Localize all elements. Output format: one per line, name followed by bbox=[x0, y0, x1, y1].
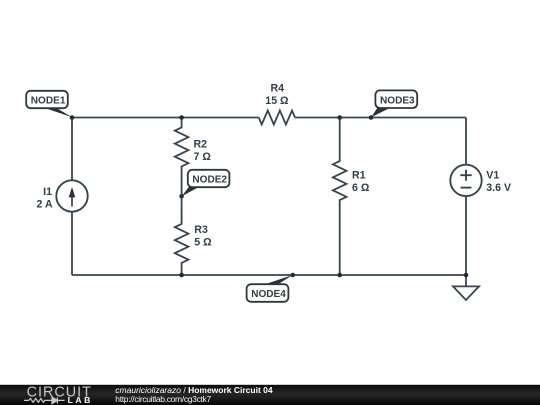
svg-text:R2: R2 bbox=[194, 139, 208, 151]
svg-text:NODE4: NODE4 bbox=[251, 289, 286, 300]
svg-text:15 Ω: 15 Ω bbox=[265, 95, 289, 107]
junction dot top-left NODE1 anchor bbox=[70, 115, 75, 120]
svg-text:I1: I1 bbox=[43, 186, 52, 198]
junction dot V1/ground bottom bbox=[464, 273, 469, 278]
node NODE4 callout bbox=[247, 275, 293, 302]
R4 value label 15 ohm bbox=[265, 83, 289, 108]
junction dot R1 bottom bbox=[337, 273, 342, 278]
svg-text:NODE3: NODE3 bbox=[380, 95, 415, 106]
V1 value label 3.6 V bbox=[486, 170, 511, 194]
I1 value label 2 A bbox=[37, 186, 53, 211]
resistor R1 bbox=[333, 118, 347, 276]
junction dot R1 top bbox=[337, 115, 342, 120]
junction dot R3 bottom bbox=[179, 273, 184, 278]
svg-text:LAB: LAB bbox=[68, 395, 93, 405]
node NODE3 callout bbox=[371, 90, 417, 117]
svg-text:3.6 V: 3.6 V bbox=[486, 182, 511, 194]
R2 value label 7 ohm bbox=[194, 139, 212, 164]
node NODE1 callout bbox=[26, 91, 72, 117]
svg-text:NODE2: NODE2 bbox=[192, 175, 227, 186]
wire left vertical lower (I1 to bottom) bbox=[71, 212, 73, 275]
R1 value label 6 ohm bbox=[352, 169, 370, 194]
svg-text:R1: R1 bbox=[352, 169, 366, 181]
svg-text:NODE1: NODE1 bbox=[31, 96, 66, 107]
svg-text:R4: R4 bbox=[271, 83, 285, 95]
footer bar bbox=[0, 385, 540, 405]
CircuitLab logo resistor-diode glyph bbox=[24, 397, 65, 404]
wire left vertical upper (NODE1 to I1) bbox=[71, 118, 73, 181]
svg-text:http://circuitlab.com/cg3ctk7: http://circuitlab.com/cg3ctk7 bbox=[115, 394, 211, 404]
junction dot NODE4 anchor bbox=[291, 273, 296, 278]
resistor R2 bbox=[175, 118, 189, 197]
wire right vertical upper (top wire to V1) bbox=[465, 118, 467, 165]
svg-text:R3: R3 bbox=[194, 224, 208, 236]
junction dot R2 top bbox=[179, 115, 184, 120]
node NODE2 callout bbox=[182, 170, 230, 196]
ground bbox=[453, 275, 479, 300]
wire right vertical lower (V1 to bottom) bbox=[465, 196, 467, 275]
voltage source V1 bbox=[450, 165, 481, 196]
resistor R3 bbox=[175, 196, 189, 275]
junction dot NODE3 anchor bbox=[369, 115, 374, 120]
wire top horizontal right segment R4 to V1 bbox=[295, 117, 466, 119]
junction dot NODE2 anchor (R2/R3) bbox=[179, 194, 184, 199]
current source I1 bbox=[56, 180, 87, 211]
wire top horizontal left segment NODE1 to R4 bbox=[72, 117, 259, 119]
svg-text:5 Ω: 5 Ω bbox=[194, 237, 212, 249]
svg-text:V1: V1 bbox=[486, 170, 499, 182]
R3 value label 5 ohm bbox=[194, 224, 212, 249]
svg-text:2 A: 2 A bbox=[37, 198, 53, 210]
wire bottom horizontal bbox=[72, 274, 466, 276]
svg-text:6 Ω: 6 Ω bbox=[352, 182, 370, 194]
svg-text:7 Ω: 7 Ω bbox=[194, 151, 212, 163]
resistor R4 bbox=[259, 111, 295, 125]
